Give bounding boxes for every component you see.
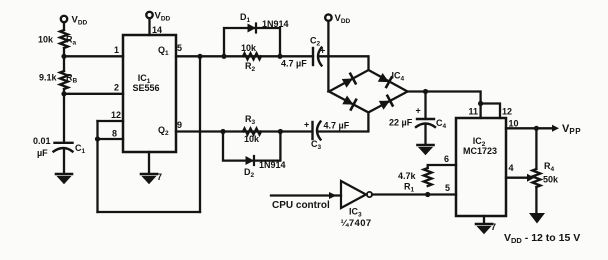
ground (C4) — [418, 145, 434, 154]
arrow to VDD supply (R4 bottom) — [529, 213, 545, 224]
diode bridge bottom-left — [342, 95, 356, 109]
resistor Rb — [60, 71, 68, 89]
svg-text:50k: 50k — [543, 175, 559, 185]
svg-text:7: 7 — [491, 222, 496, 232]
capacitor C3 — [311, 122, 313, 139]
power VDD terminal (left) — [61, 16, 67, 22]
pin 6 label — [444, 154, 449, 164]
wire pin 6 — [428, 165, 456, 168]
svg-text:µF: µF — [37, 148, 48, 158]
node junction R1 bottom — [425, 192, 430, 197]
capacitor C4 — [424, 92, 426, 120]
node junction R4 top — [534, 126, 539, 131]
pin 8 label — [112, 129, 117, 139]
node junction C4 — [423, 89, 428, 94]
pin 9 label — [177, 120, 182, 130]
wire feedback bottom — [98, 211, 201, 213]
wire VDD to bridge left vertex — [327, 21, 329, 92]
wire pin 5 — [372, 193, 456, 195]
node junction pin2 — [61, 91, 66, 96]
pin 7 label (IC2) — [491, 222, 496, 232]
diode bridge top-right — [378, 73, 392, 87]
svg-text:12: 12 — [502, 107, 512, 117]
diode bridge bottom-right — [379, 96, 393, 110]
svg-text:0.01: 0.01 — [33, 136, 51, 146]
arrow R4 wiper — [527, 174, 535, 182]
node junction pin8 — [95, 136, 100, 141]
svg-text:1: 1 — [114, 45, 119, 55]
node junction pin11-12 — [478, 101, 483, 106]
ground (IC1 pin 7) — [141, 174, 157, 183]
svg-text:5: 5 — [177, 43, 182, 53]
svg-text:10k: 10k — [38, 35, 54, 45]
arrow CPU control — [329, 192, 337, 199]
svg-text:4.7 µF: 4.7 µF — [324, 121, 350, 131]
pin 14 label — [152, 25, 162, 35]
wire C3 to bridge bottom — [318, 112, 368, 131]
wire feedback left vertical — [96, 121, 98, 212]
capacitor C1 — [55, 142, 73, 144]
svg-text:4: 4 — [509, 163, 514, 173]
pin 4 label — [509, 163, 514, 173]
wire feedback right vertical — [199, 56, 201, 212]
node VDD label (bridge) — [335, 13, 351, 25]
power VDD terminal (IC1 pin14) — [146, 12, 152, 18]
pin 12 label — [502, 107, 512, 117]
pin 5 label — [445, 183, 450, 193]
wire Ra to Rb — [63, 48, 65, 71]
wire Rb to C1 — [63, 89, 65, 142]
diode D2 — [246, 156, 255, 165]
svg-text:14: 14 — [152, 25, 162, 35]
svg-text:7: 7 — [157, 172, 162, 182]
resistor R1 — [424, 168, 432, 186]
pin 10 label — [509, 119, 519, 129]
wire pin 7 IC2 — [483, 216, 485, 223]
svg-text:22 µF: 22 µF — [389, 118, 413, 128]
wire pin 12 — [98, 120, 124, 122]
svg-text:+: + — [320, 46, 325, 56]
diode bridge IC4 outline — [329, 70, 408, 112]
svg-text:+: + — [304, 120, 309, 130]
arrow Vpp — [552, 125, 559, 132]
svg-text:8: 8 — [112, 129, 117, 139]
node VDD label (left) — [72, 15, 88, 27]
svg-text:10k: 10k — [241, 43, 257, 53]
wire C1 to ground — [63, 150, 65, 173]
wire pin 10 / Vpp — [506, 127, 554, 129]
svg-text:5: 5 — [445, 183, 450, 193]
svg-text:9.1k: 9.1k — [39, 73, 58, 83]
ground (C1) — [56, 174, 72, 183]
label IC4 — [392, 71, 405, 83]
wire Q2 output — [176, 130, 312, 132]
pin 7 label (IC1) — [157, 172, 162, 182]
node junction D2 left — [220, 129, 225, 134]
capacitor C2 — [312, 48, 314, 65]
resistor R2 — [243, 53, 261, 59]
node VDD label (pin14) — [155, 11, 171, 23]
svg-text:6: 6 — [444, 154, 449, 164]
wire CPU control — [271, 194, 341, 196]
pin 2 label — [114, 83, 119, 93]
svg-text:1N914: 1N914 — [259, 160, 286, 170]
label Q1 — [158, 45, 169, 57]
label Q2 — [158, 125, 169, 137]
wire pin 1 — [64, 55, 123, 57]
svg-text:10: 10 — [509, 119, 519, 129]
pin 12 label — [111, 110, 121, 120]
node junction pin1 — [61, 54, 66, 59]
power VDD terminal (bridge) — [325, 14, 331, 20]
diode bridge top-left — [342, 74, 356, 88]
svg-text:¼7407: ¼7407 — [341, 218, 372, 229]
resistor R3 — [243, 129, 261, 135]
svg-text:MC1723: MC1723 — [463, 146, 497, 156]
label VDD - 12 to 15 V — [504, 232, 580, 245]
wire C2 to bridge top — [319, 56, 369, 70]
potentiometer R4 — [535, 128, 537, 169]
wire pin 14 — [148, 18, 150, 35]
svg-text:1N914: 1N914 — [262, 19, 289, 29]
node Vpp label — [562, 123, 581, 136]
svg-text:CPU control: CPU control — [272, 200, 330, 211]
pin 1 label — [114, 45, 119, 55]
wire D2 branch — [223, 132, 280, 161]
wire bridge output rail — [408, 92, 481, 119]
svg-text:10k: 10k — [244, 134, 260, 144]
resistor Ra — [60, 30, 68, 48]
wire pin 4 to R4 wiper — [506, 177, 528, 179]
node junction Q1-feedback — [197, 54, 202, 59]
op-amp U1 : IC1 SE556 box — [123, 35, 176, 152]
svg-text:12: 12 — [111, 110, 121, 120]
diode D1 — [248, 24, 257, 33]
label CPU control — [272, 200, 330, 211]
svg-text:11: 11 — [469, 107, 479, 117]
svg-text:9: 9 — [177, 120, 182, 130]
svg-text:SE556: SE556 — [132, 83, 159, 93]
pin 5 label — [177, 43, 182, 53]
wire pin 12 bracket — [481, 104, 500, 119]
ground (IC2 pin 7) — [476, 224, 492, 233]
svg-text:4.7 µF: 4.7 µF — [281, 59, 307, 69]
wire D1 branch — [224, 28, 280, 56]
svg-text:2: 2 — [114, 83, 119, 93]
node junction D1 right — [277, 54, 282, 59]
wire pin 8 — [98, 138, 124, 140]
pin 11 label — [469, 107, 479, 117]
wire VDD to Ra — [63, 22, 65, 30]
op-amp U2 : IC2 MC1723 box — [456, 118, 506, 216]
wire C4 to ground — [424, 125, 426, 144]
wire pin 2 — [64, 93, 123, 95]
node junction D1 left — [221, 54, 226, 59]
buffer IC3 (1/4 7407) — [341, 181, 366, 208]
svg-text:+: + — [416, 106, 421, 116]
svg-text:4.7k: 4.7k — [398, 171, 417, 181]
wire Q1 output — [176, 55, 313, 57]
node junction D2 right — [278, 129, 283, 134]
wire pin 7 IC1 — [148, 152, 150, 173]
